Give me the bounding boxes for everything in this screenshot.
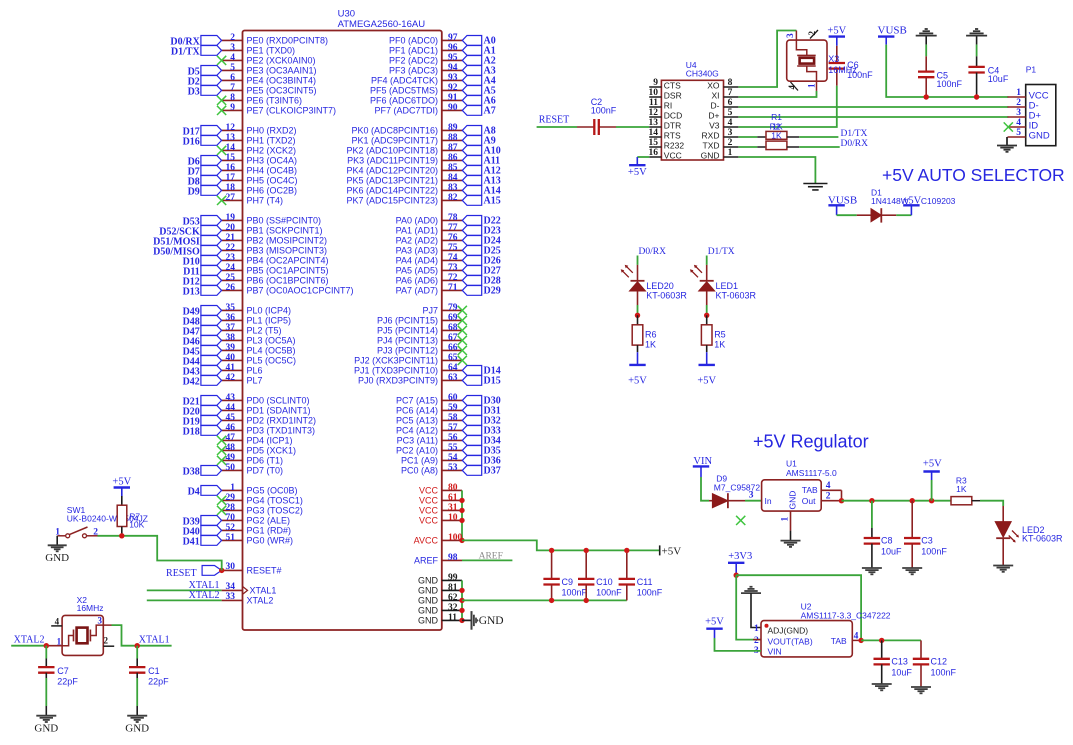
U30 pin 38 (PL3 (OC5A)) [222,333,296,345]
U30 pin 48 (PD5 (XCK1)) [222,443,296,455]
svg-text:C8: C8 [881,536,893,546]
U30 pin 12 (PH0 (RXD2)) [222,123,297,135]
svg-text:58: 58 [448,413,458,423]
no-connect X on pin 14 [217,146,226,155]
svg-text:36: 36 [226,313,236,323]
resistor R7 10K [117,496,144,536]
U30 pin 93 (PF4 (ADC4TCK)) [371,73,462,85]
svg-text:1K: 1K [645,339,656,349]
svg-text:D16: D16 [183,136,200,147]
svg-text:PE2 (XCK0AIN0): PE2 (XCK0AIN0) [247,55,316,65]
net flag D13 [183,286,222,298]
svg-text:PG0 (WR#): PG0 (WR#) [247,535,294,545]
U30 pin 37 (PL2 (T5)) [222,323,282,335]
no-connect X on pin 69 [458,316,467,325]
U30 pin 7 (PE5 (OC3CINT5)) [222,83,317,95]
svg-text:44: 44 [226,403,236,413]
svg-text:RTS: RTS [664,130,681,140]
svg-text:VIN: VIN [768,647,782,657]
svg-text:38: 38 [226,333,236,343]
junction +3V3 node [734,573,739,578]
P1 pin 1 (VCC) [1008,88,1049,101]
svg-text:59: 59 [448,403,458,413]
wire R1 to net D1/TX [799,136,838,138]
U1 reference designator [786,459,797,469]
net flag D1/TX [171,46,222,58]
U30 pin 49 (PD6 (T1)) [222,453,283,465]
net flag D28 [462,275,500,286]
svg-text:22pF: 22pF [57,676,78,686]
net flag D36 [462,455,500,466]
net flag D37 [462,465,500,476]
svg-text:23: 23 [226,253,236,263]
svg-text:2: 2 [754,636,759,646]
U30 pin 87 (PK2 (ADC10PCINT18)) [346,143,462,155]
capacitor C1 22pF [129,646,169,716]
svg-text:15: 15 [226,153,236,163]
svg-text:3: 3 [1016,108,1021,118]
wire XTAL2 to U30 [147,599,222,601]
capacitor C13 10uF [874,640,913,684]
svg-text:83: 83 [448,183,458,193]
P1 pin 3 (D+) [1008,108,1042,121]
U30 pin 85 (PK4 (ADC12PCINT20)) [346,163,462,175]
svg-text:4: 4 [230,53,235,63]
svg-text:VCC: VCC [419,496,439,506]
svg-text:14: 14 [226,143,236,153]
U30 pin 10 (VCC) [419,513,462,526]
net flag D29 [462,285,500,296]
svg-text:KT-0603R: KT-0603R [716,290,757,300]
svg-text:71: 71 [448,283,458,293]
svg-text:PD3 (TXD1INT3): PD3 (TXD1INT3) [247,425,316,435]
svg-text:PC0 (A8): PC0 (A8) [401,465,438,475]
svg-text:57: 57 [448,423,458,433]
diode D1 1N4148W [857,188,956,223]
svg-text:34: 34 [226,582,236,592]
svg-text:PF3 (ADC3): PF3 (ADC3) [389,65,438,75]
U30 pin 21 (PB2 (MOSIPCINT2)) [222,233,327,245]
wire D- to P1 [738,106,1008,108]
net flag A0 [462,35,495,46]
wire GND row to capacitor bottoms [462,599,627,601]
svg-text:PH4 (OC4B): PH4 (OC4B) [247,165,298,175]
svg-text:PD1 (SDAINT1): PD1 (SDAINT1) [247,405,311,415]
net flag A5 [462,85,495,96]
junction VCC pin 10 [459,518,464,523]
svg-text:TAB: TAB [831,636,847,646]
svg-text:GND: GND [418,606,439,616]
svg-text:13: 13 [649,118,659,128]
U2 value AMS1117-3.3_C347222 [801,610,891,620]
crystal X2 16MHz [51,595,114,656]
svg-text:89: 89 [448,123,458,133]
svg-text:D9: D9 [188,186,200,197]
svg-text:PC2 (A10): PC2 (A10) [396,445,438,455]
U30 pin 40 (PL5 (OC5C)) [222,353,296,365]
svg-text:GND: GND [788,491,798,510]
ground below C8 [862,568,882,574]
no-connect X on pin 8 [217,96,226,105]
U4 pin 13 (DTR) [649,118,682,130]
no-connect X on pin 49 [217,456,226,465]
svg-text:9: 9 [230,103,235,113]
U30 pin 13 (PH1 (TXD2)) [222,133,296,145]
power symbol +5V at U4 VCC [628,157,649,178]
svg-text:8: 8 [728,78,733,88]
svg-text:D13: D13 [183,286,200,297]
svg-text:R6: R6 [645,329,657,339]
svg-text:PH0 (RXD2): PH0 (RXD2) [247,125,297,135]
svg-text:96: 96 [448,43,458,53]
svg-text:81: 81 [448,583,458,593]
no-connect X on pin 4 [217,56,226,65]
wire VUSB to D1 anode [837,214,857,216]
wire XTAL1 to U30 [147,589,222,591]
svg-text:PH3 (OC4A): PH3 (OC4A) [247,155,298,165]
junction below LED1 [704,313,709,318]
U30 pin 59 (PC6 (A14)) [396,403,462,415]
U30 pin 57 (PC4 (A12)) [396,423,462,435]
svg-text:5: 5 [728,108,733,118]
svg-text:D4: D4 [188,486,200,497]
U30 pin 95 (PF2 (ADC2)) [389,53,462,65]
power symbol +5V at U2 VIN [705,617,724,639]
net flag D17 [183,126,222,138]
net flag D42 [183,376,222,388]
wire +5V output rail [842,500,952,502]
resistor R6 1K [632,315,656,352]
svg-text:2: 2 [230,33,235,43]
svg-text:+3V3: +3V3 [728,551,752,562]
U4 pin 14 (RTS) [649,128,681,140]
U30 pin 11 (GND) [418,613,462,626]
svg-text:D3: D3 [188,86,200,97]
net label D0/RX [841,139,869,149]
U30 pin 65 (PJ2 (XCK3PCINT11)) [354,353,462,365]
svg-text:CH340G: CH340G [686,69,719,79]
svg-text:61: 61 [448,493,458,503]
svg-text:99: 99 [448,573,458,583]
svg-text:PE6 (T3INT6): PE6 (T3INT6) [247,95,303,105]
U30 pin 45 (PD2 (RXD1INT2)) [222,413,316,425]
svg-text:74: 74 [448,253,458,263]
svg-text:16: 16 [226,163,236,173]
U30 value ATMEGA2560-16AU [338,19,426,30]
svg-text:35: 35 [226,303,236,313]
power symbol +5V at D1 [902,196,921,216]
svg-text:51: 51 [226,533,236,543]
svg-text:21: 21 [226,233,236,243]
net flag A3 [462,65,495,76]
junction VCC pin 61 [459,498,464,503]
U4 reference designator [686,60,697,70]
svg-text:PC4 (A12): PC4 (A12) [396,425,438,435]
svg-text:D29: D29 [484,285,501,296]
wire XTAL2 stub left of X2 [11,645,62,647]
power symbol +5V at C6 [827,26,846,46]
P1 reference designator [1026,65,1037,75]
U30 pin 50 (PD7 (T0)) [222,463,283,475]
net flag A11 [462,155,500,166]
U30 pin 26 (PB7 (OC0AOC1CPCINT7)) [222,283,354,295]
svg-text:PA6 (AD6): PA6 (AD6) [396,275,438,285]
ground below C12 [911,687,931,693]
svg-text:PC1 (A9): PC1 (A9) [401,455,438,465]
svg-text:79: 79 [448,303,458,313]
U30 pin 63 (PJ0 (RXD3PCINT9)) [358,373,462,385]
ground symbol above C4 (inverted) [966,29,987,36]
svg-text:84: 84 [448,173,458,183]
svg-text:48: 48 [226,443,236,453]
capacitor C9 100nF [543,550,587,600]
U30 pin 27 (PH7 (T4)) [222,193,283,205]
svg-text:PA4 (AD4): PA4 (AD4) [396,255,438,265]
wire GND chain vertical [461,580,463,620]
svg-text:1: 1 [1016,88,1021,98]
U1 pin label GND (rotated) [788,491,798,510]
U2 pin 3 (VIN) [754,646,782,656]
svg-text:PB1 (SCKPCINT1): PB1 (SCKPCINT1) [247,225,323,235]
ground symbol above C5 (inverted) [916,29,937,36]
U30 pin 30 (RESET#) [222,562,282,575]
net flag D19 [183,416,222,428]
svg-text:C7: C7 [57,666,69,676]
svg-text:98: 98 [448,553,458,563]
svg-text:10K: 10K [129,519,144,529]
net flag D10 [183,256,222,268]
U4 pin 8 (XO) [707,78,738,90]
svg-text:3: 3 [728,128,733,138]
svg-text:ATMEGA2560-16AU: ATMEGA2560-16AU [338,19,426,30]
svg-text:67: 67 [448,333,458,343]
svg-text:AREF: AREF [414,556,439,566]
svg-text:+5V: +5V [827,26,846,37]
svg-text:PF4 (ADC4TCK): PF4 (ADC4TCK) [371,75,438,85]
IC U4 CH340G body [661,80,723,160]
svg-text:55: 55 [448,443,458,453]
U30 pin 97 (PF0 (ADC0)) [389,33,462,45]
svg-text:XTAL2: XTAL2 [189,590,220,601]
wire +5V to U2 VIN [715,638,762,651]
junction XTAL1/C1 [135,643,140,648]
U30 pin 82 (PK7 (ADC15PCINT23)) [346,193,462,205]
svg-text:65: 65 [448,353,458,363]
svg-text:47: 47 [226,433,236,443]
svg-text:24: 24 [226,263,236,273]
svg-text:GND: GND [418,616,439,626]
U30 pin 71 (PA7 (AD7)) [396,283,463,295]
svg-text:In: In [765,496,772,506]
junction C9 bottom [549,598,554,603]
net label XTAL2 (IC side) [189,590,220,601]
svg-text:PH5 (OC4C): PH5 (OC4C) [247,175,298,185]
svg-text:PG4 (TOSC1): PG4 (TOSC1) [247,495,303,505]
U30 pin 44 (PD1 (SDAINT1)) [222,403,311,415]
svg-text:RESET#: RESET# [247,566,282,576]
svg-text:XO: XO [707,80,720,90]
svg-text:16MHz: 16MHz [77,603,104,613]
wire U4 XO to crystal X3 pin3 [738,31,796,88]
svg-text:12: 12 [226,123,236,133]
svg-text:AREF: AREF [479,551,503,561]
U2 pin 4 (TAB) [831,632,861,646]
svg-text:PK4 (ADC12PCINT20): PK4 (ADC12PCINT20) [346,165,438,175]
svg-text:+5V: +5V [112,477,131,488]
net flag D30 [462,395,500,406]
net flag D48 [183,316,222,328]
power symbol +5V at R7 [112,477,131,496]
net flag D41 [183,536,222,548]
svg-text:PD6 (T1): PD6 (T1) [247,455,284,465]
svg-text:+5V: +5V [923,459,942,470]
svg-text:PF1 (ADC1): PF1 (ADC1) [389,45,438,55]
svg-text:C11: C11 [637,577,653,587]
svg-text:PD5 (XCK1): PD5 (XCK1) [247,445,297,455]
U30 pin 56 (PC3 (A11)) [397,433,463,445]
net flag D0/RX [170,36,221,48]
U30 pin 99 (GND) [418,573,462,586]
svg-text:PJ6 (PCINT15): PJ6 (PCINT15) [377,315,438,325]
svg-text:41: 41 [226,363,236,373]
svg-text:18: 18 [226,183,236,193]
svg-text:DTR: DTR [664,120,681,130]
junction C8 top [869,498,874,503]
svg-text:78: 78 [448,213,458,223]
ground at SW1 pin1 [45,536,69,564]
U30 pin 88 (PK1 (ADC9PCINT17)) [351,133,462,145]
svg-text:D1/TX: D1/TX [841,129,868,139]
svg-text:10: 10 [448,513,458,523]
svg-text:PE0 (RXD0PCINT8): PE0 (RXD0PCINT8) [247,35,329,45]
net flag A6 [462,95,495,106]
svg-text:PH1 (TXD2): PH1 (TXD2) [247,135,296,145]
U30 pin 58 (PC5 (A13)) [396,413,462,425]
svg-text:100nF: 100nF [562,588,588,598]
net flag D39 [183,516,222,528]
svg-text:+5V AUTO SELECTOR: +5V AUTO SELECTOR [882,165,1065,185]
net flag D21 [183,396,222,408]
svg-text:D15: D15 [484,375,501,386]
junction GND pin 62 [459,598,464,603]
svg-text:2: 2 [104,636,109,646]
LED2 KT-0603R [995,506,1063,565]
no-connect X on pin 68 [458,326,467,335]
svg-text:GND: GND [701,150,720,160]
net flag D2 [188,76,222,88]
svg-text:DCD: DCD [664,110,682,120]
net flag D26 [462,255,500,266]
svg-text:VCC: VCC [419,486,439,496]
svg-text:+5V: +5V [628,376,647,387]
U4 pin 12 (DCD) [649,108,683,120]
junction C4 bottom [974,94,979,99]
U4 pin 5 (D+) [708,108,738,120]
svg-text:CTS: CTS [664,80,681,90]
power symbol +5V below R6 [628,352,647,386]
svg-text:2: 2 [1016,98,1021,108]
svg-text:32: 32 [448,603,458,613]
U30 pin 32 (GND) [418,603,462,616]
resistor R5 1K [701,315,725,352]
junction GND pin 81 [459,588,464,593]
svg-text:16MHz: 16MHz [828,65,857,75]
svg-text:PE7 (CLKOICP3INT7): PE7 (CLKOICP3INT7) [247,105,337,115]
U30 pin 17 (PH5 (OC4C)) [222,173,298,185]
svg-text:82: 82 [448,193,458,203]
no-connect X on pin 28 [217,506,226,515]
net flag D33 [462,425,500,436]
svg-text:RESET: RESET [166,568,197,579]
svg-text:+5V: +5V [902,196,921,207]
U30 pin 78 (PA0 (AD0)) [396,213,463,225]
svg-text:XTAL2: XTAL2 [247,596,274,606]
net flag A14 [462,185,500,196]
U1 pin 3 (In) [749,491,772,507]
wire D1 cathode to +5V [896,214,911,216]
svg-text:PJ1 (TXD3PCINT10): PJ1 (TXD3PCINT10) [354,365,438,375]
svg-text:AMS1117-3.3_C347222: AMS1117-3.3_C347222 [801,610,891,620]
U4 pin 11 (RI) [649,98,672,110]
junction C11 top [624,548,629,553]
svg-text:PG2 (ALE): PG2 (ALE) [247,515,291,525]
svg-text:PF6 (ADC6TDO): PF6 (ADC6TDO) [370,95,438,105]
diode D9 M7_C95872 [709,473,760,508]
junction GND pin 11 [459,618,464,623]
svg-text:1: 1 [781,517,791,522]
svg-text:10uF: 10uF [891,667,912,677]
title text +5V Regulator [753,431,869,451]
net flag D6 [188,156,222,168]
net flag D5 [188,66,222,78]
svg-text:53: 53 [448,463,458,473]
svg-text:PL7: PL7 [247,375,263,385]
net label RESET at flag [166,568,197,579]
U30 pin 43 (PD0 (SCLINT0)) [222,393,310,405]
net flag A4 [462,75,495,86]
svg-text:7: 7 [230,83,235,93]
ground at U2 ADJ (inverted) [741,587,761,628]
svg-text:4: 4 [728,118,733,128]
svg-text:7: 7 [728,88,733,98]
wire +3V3 to U2 VOUT [736,575,761,639]
svg-text:C13: C13 [891,657,908,667]
wire D9 to U1 In [745,500,762,502]
switch SW1 UK-B0240-W [55,505,148,538]
resistor R1 1K (RXD) [738,112,799,139]
U30 pin 67 (PJ4 (PCINT13)) [377,333,462,345]
svg-text:ADJ(GND): ADJ(GND) [768,625,809,635]
svg-text:52: 52 [226,523,236,533]
wire VUSB to P1 VCC [886,45,1008,97]
svg-text:PE4 (OC3BINT4): PE4 (OC3BINT4) [247,75,317,85]
U30 pin 60 (PC7 (A15)) [396,393,462,405]
svg-text:3: 3 [749,491,754,501]
U30 pin 22 (PB3 (MISOPCINT3)) [222,243,327,255]
U30 pin 79 (PJ7) [422,303,462,315]
svg-text:PB4 (OC2APCINT4): PB4 (OC2APCINT4) [247,255,329,265]
svg-text:VUSB: VUSB [878,25,907,37]
LED LED1 KT-0603R [690,256,757,306]
net flag A10 [462,145,500,156]
U30 pin 2 (PE0 (RXD0PCINT8)) [222,33,328,45]
junction AVCC node [459,538,464,543]
svg-text:GND: GND [418,576,439,586]
U4 pin 4 (V3) [709,118,738,130]
ground at P1 GND [997,137,1017,152]
junction VCC pin 31 [459,508,464,513]
net flag D53 [183,216,222,228]
